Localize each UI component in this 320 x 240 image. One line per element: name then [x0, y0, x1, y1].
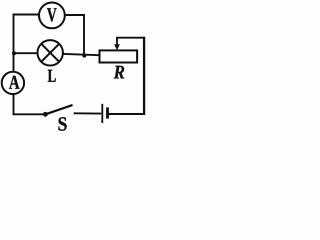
- wire: top-left horizontal to voltmeter: [13, 14, 39, 16]
- wire: battery right horizontal: [109, 113, 146, 115]
- wire: left rail vertical upper segment: [13, 14, 15, 72]
- wire: lamp left horizontal: [14, 52, 38, 54]
- wire: lamp right horizontal to rheostat: [64, 54, 100, 55]
- rheostat wiper arrow: [114, 37, 120, 50]
- battery: long plate (positive): [101, 104, 103, 123]
- switch S pivot dot: [43, 112, 48, 117]
- battery: short thick plate (negative): [106, 107, 109, 118]
- rheostat R (resistor box): [100, 50, 138, 62]
- wire: bottom-left horizontal to switch pivot: [13, 113, 45, 115]
- wire: vertical drop right of voltmeter: [83, 14, 85, 55]
- wire: left rail vertical lower segment (ammeter to bottom): [13, 95, 15, 115]
- node: junction left rail / lamp wire: [12, 51, 16, 55]
- ammeter A: [2, 72, 24, 94]
- label L: [48, 70, 56, 82]
- voltmeter V: [39, 3, 65, 29]
- wire: switch contact to battery: [74, 112, 102, 114]
- wire: right rail vertical: [143, 37, 145, 115]
- label S: [59, 117, 67, 131]
- node: junction voltmeter drop / lamp-rheostat wire: [82, 53, 86, 57]
- wire: voltmeter right horizontal: [66, 14, 85, 16]
- label R: [114, 66, 125, 79]
- lamp L: [38, 40, 63, 65]
- wire: rheostat wiper top horizontal: [116, 37, 145, 39]
- switch S lever: [45, 105, 71, 114]
